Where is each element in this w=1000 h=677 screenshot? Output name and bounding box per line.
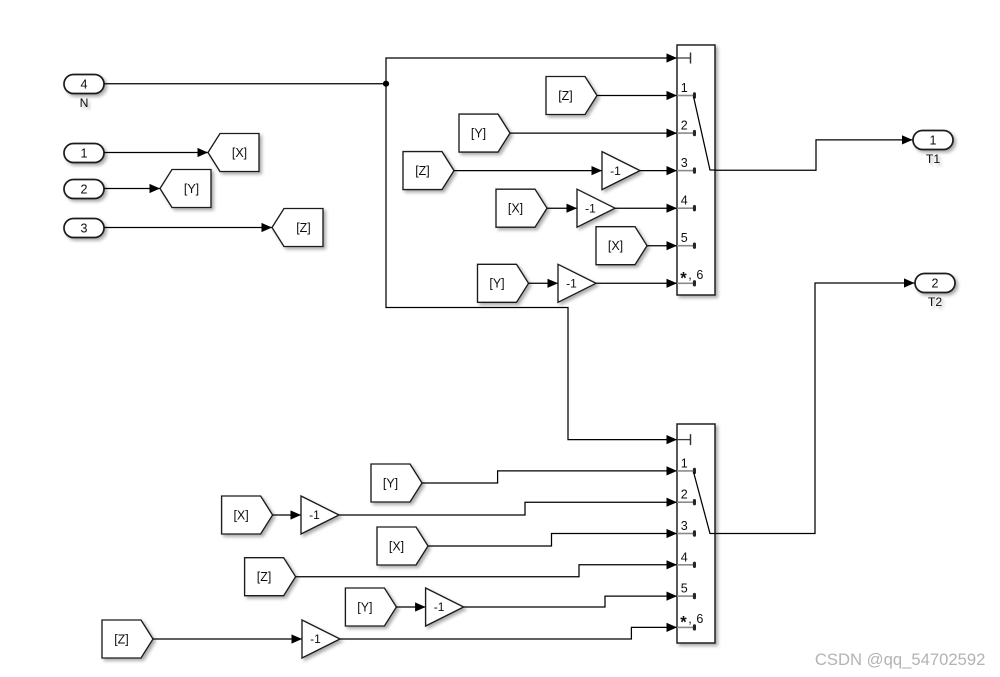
svg-text:2: 2 xyxy=(81,182,88,196)
wire switch2 to outport T2 xyxy=(715,278,915,533)
multiport switch 2 xyxy=(677,424,715,643)
svg-text:[Z]: [Z] xyxy=(296,221,311,235)
svg-text:[Y]: [Y] xyxy=(357,600,372,614)
from Z (row 10) xyxy=(245,558,296,596)
svg-text:[Z]: [Z] xyxy=(114,632,129,646)
wire from X to gain 4 xyxy=(273,510,301,519)
goto Z xyxy=(272,209,323,247)
gain -1 (6) xyxy=(302,620,340,658)
wire from Z to switch2 port4 xyxy=(296,560,677,577)
svg-text:-1: -1 xyxy=(610,164,621,178)
multiport switch 1 xyxy=(677,45,715,295)
svg-text:[Z]: [Z] xyxy=(415,164,430,178)
from Y (row 11) xyxy=(345,588,396,626)
outport 2 xyxy=(915,274,955,293)
svg-text:2: 2 xyxy=(681,119,688,133)
svg-text:1: 1 xyxy=(681,456,688,470)
svg-text:5: 5 xyxy=(681,231,688,245)
wire from Z to gain 1 xyxy=(454,166,602,175)
svg-text:1: 1 xyxy=(81,146,88,160)
svg-text:4: 4 xyxy=(681,550,688,564)
svg-text:CSDN @qq_54702592: CSDN @qq_54702592 xyxy=(815,650,986,669)
wire gain2 to switch1 port4 xyxy=(615,204,677,213)
junction dot xyxy=(383,81,389,87)
svg-text:4: 4 xyxy=(681,194,688,208)
from Y (row 2) xyxy=(459,114,510,152)
svg-text:3: 3 xyxy=(81,221,88,235)
from Y (row 7) xyxy=(371,464,422,502)
gain -1 (2) xyxy=(577,189,615,227)
svg-text:[X]: [X] xyxy=(508,202,523,216)
svg-text:-1: -1 xyxy=(585,201,596,215)
wire inport1 to goto X xyxy=(104,148,208,157)
svg-text:N: N xyxy=(80,96,89,110)
wire gain1 to switch1 port3 xyxy=(640,166,677,175)
wire switch1 to outport T1 xyxy=(715,135,913,170)
inport 1 xyxy=(64,144,104,163)
svg-text:1: 1 xyxy=(681,81,688,95)
svg-text:[Y]: [Y] xyxy=(471,126,486,140)
wire from Z to switch1 port1 xyxy=(597,91,677,100)
svg-text:[X]: [X] xyxy=(233,508,248,522)
svg-text:[Y]: [Y] xyxy=(184,182,199,196)
inport 3 xyxy=(64,219,104,238)
svg-text:1: 1 xyxy=(930,133,937,147)
goto Y xyxy=(160,170,211,208)
svg-text:4: 4 xyxy=(81,77,88,91)
gain -1 (4) xyxy=(301,496,339,534)
svg-text:-1: -1 xyxy=(310,632,321,646)
wire from Z to gain 6 xyxy=(153,634,302,643)
wire from X to gain 2 xyxy=(547,204,577,213)
svg-text:[X]: [X] xyxy=(232,146,247,160)
wire to switch 2 control xyxy=(386,84,677,445)
svg-text:-1: -1 xyxy=(434,600,445,614)
svg-text:T1: T1 xyxy=(926,152,940,166)
gain -1 (3) xyxy=(558,264,596,302)
wire from Y to gain 3 xyxy=(529,279,559,288)
svg-text:[X]: [X] xyxy=(389,539,404,553)
from X (row 5) xyxy=(596,227,647,265)
svg-text:T2: T2 xyxy=(928,295,942,309)
inport 4 xyxy=(64,75,104,94)
wire from X to switch2 port3 xyxy=(428,529,677,546)
svg-text:3: 3 xyxy=(681,519,688,533)
from Y (row 6) xyxy=(478,264,529,302)
svg-text:2: 2 xyxy=(681,488,688,502)
svg-text:[Z]: [Z] xyxy=(257,570,272,584)
inport 2 xyxy=(64,180,104,199)
gain -1 (1) xyxy=(602,152,640,190)
from Z (row 1) xyxy=(546,77,597,115)
wire to switch 1 control xyxy=(386,53,677,83)
wire gain3 to switch1 port6 xyxy=(596,279,677,288)
wire gain5 to switch2 port5 xyxy=(464,592,677,608)
svg-text:[Y]: [Y] xyxy=(383,476,398,490)
goto X xyxy=(208,134,259,172)
svg-text:3: 3 xyxy=(681,156,688,170)
gain -1 (5) xyxy=(426,588,464,626)
from Z (row 12) xyxy=(102,620,153,658)
wire from Y to switch1 port2 xyxy=(510,129,677,138)
svg-text:-1: -1 xyxy=(309,508,320,522)
wire inport2 to goto Y xyxy=(104,184,160,193)
svg-text:-1: -1 xyxy=(566,277,577,291)
from X (row 8) xyxy=(222,496,273,534)
from X (row 9) xyxy=(377,527,428,565)
wire from Y to switch2 port1 xyxy=(422,466,677,483)
wire from X to switch1 port5 xyxy=(647,241,677,250)
svg-text:[Z]: [Z] xyxy=(558,89,573,103)
svg-text:2: 2 xyxy=(932,276,939,290)
wire gain4 to switch2 port2 xyxy=(339,498,677,515)
svg-text:5: 5 xyxy=(681,582,688,596)
wire from inport 4 xyxy=(104,83,386,85)
svg-text:[Y]: [Y] xyxy=(489,277,504,291)
wire inport3 to goto Z xyxy=(104,223,272,232)
svg-text:[X]: [X] xyxy=(608,239,623,253)
from Z (row 3) xyxy=(403,152,454,190)
wire gain6 to switch2 port6 xyxy=(340,623,677,639)
wire from Y to gain 5 xyxy=(396,602,425,611)
outport 1 xyxy=(913,131,953,150)
from X (row 4) xyxy=(496,189,547,227)
